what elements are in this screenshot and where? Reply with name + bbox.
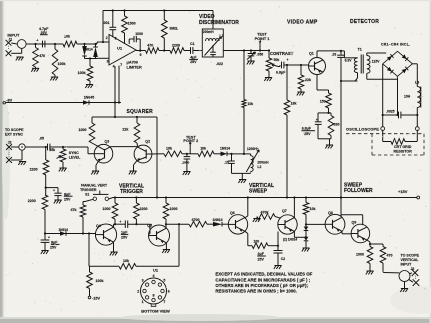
svg-text:2200: 2200 [30,167,38,171]
svg-text:18k: 18k [291,102,297,106]
svg-text:100k: 100k [58,62,66,66]
svg-text:4: 4 [153,274,155,278]
svg-text:-15V: -15V [92,297,100,301]
svg-text:J3: J3 [411,267,415,271]
svg-text:C2: C2 [281,257,285,261]
svg-text:Q1: Q1 [309,52,314,56]
svg-text:LIMITER: LIMITER [127,66,142,70]
svg-text:POINT 2: POINT 2 [183,139,198,143]
svg-text:+: + [316,118,318,122]
svg-text:2: 2 [106,36,108,40]
svg-text:U1: U1 [117,46,123,51]
svg-text:+: + [53,189,55,193]
svg-text:FOLLOWER: FOLLOWER [344,188,373,194]
svg-text:10k: 10k [248,102,254,106]
svg-text:100: 100 [254,240,260,244]
svg-text:Q9: Q9 [352,220,357,224]
svg-text:25V: 25V [190,60,197,64]
svg-text:T1: T1 [358,47,362,51]
svg-text:TO SCOPE: TO SCOPE [401,253,420,257]
svg-text:2200: 2200 [140,207,148,211]
svg-text:+: + [287,58,289,62]
svg-text:25V: 25V [304,132,311,136]
svg-text:10k: 10k [166,146,172,150]
svg-text:OSCILLOSCOPE: OSCILLOSCOPE [346,126,379,131]
svg-text:8: 8 [115,37,117,41]
svg-text:115V: 115V [372,59,380,63]
svg-text:Q8: Q8 [328,211,333,215]
svg-text:CONTRAST: CONTRAST [270,51,294,56]
svg-text:22k: 22k [305,78,311,82]
svg-text:SWEEP: SWEEP [249,189,268,195]
svg-text:1000: 1000 [170,207,178,211]
svg-text:N914: N914 [85,48,93,52]
svg-text:10H: 10H [404,95,411,99]
svg-text:+: + [48,236,50,240]
svg-text:1000: 1000 [356,253,364,257]
svg-text:7: 7 [163,300,165,304]
svg-text:OTHERS ARE IN PICOFARADS ( pF: OTHERS ARE IN PICOFARADS ( pF OR μμF); [215,283,308,288]
svg-text:200mH: 200mH [203,30,214,34]
svg-text:6.3V: 6.3V [345,58,353,62]
svg-text:μA709: μA709 [127,61,138,65]
svg-text:.0025: .0025 [386,110,395,114]
svg-text:47k: 47k [71,208,77,212]
svg-text:10k: 10k [123,259,129,263]
svg-text:DISCRIMINATOR: DISCRIMINATOR [199,20,239,26]
svg-text:Q3: Q3 [105,140,110,144]
svg-text:.33: .33 [332,53,337,57]
svg-text:+: + [119,220,121,224]
svg-text:1000: 1000 [79,128,87,132]
svg-text:6.8μF: 6.8μF [302,127,312,131]
svg-text:22k: 22k [122,128,128,132]
svg-text:BOTTOM VIEW: BOTTOM VIEW [141,309,170,314]
svg-text:L2: L2 [257,165,261,169]
svg-text:SQUARER: SQUARER [127,109,154,115]
svg-text:C1: C1 [190,42,195,46]
svg-text:25V: 25V [50,246,57,250]
svg-text:(2) 1N914: (2) 1N914 [283,237,297,241]
svg-text:J2: J2 [8,140,12,144]
svg-text:.1500: .1500 [182,161,190,165]
svg-text:.056: .056 [257,52,264,56]
svg-text:25V: 25V [258,257,265,261]
svg-text:Q2: Q2 [145,140,150,144]
svg-text:.001: .001 [103,21,110,25]
svg-text:2200: 2200 [28,199,36,203]
svg-text:CR1–CR4 INCL.: CR1–CR4 INCL. [381,43,410,47]
svg-text:RESISTOR: RESISTOR [394,150,413,154]
svg-text:VIDEO AMP: VIDEO AMP [287,20,318,26]
svg-text:470: 470 [39,54,45,58]
svg-text:330: 330 [334,122,340,126]
svg-text:1μF: 1μF [121,230,128,234]
svg-text:Q7: Q7 [282,209,287,213]
svg-text:25V: 25V [64,197,71,201]
svg-text:1000: 1000 [103,207,111,211]
svg-text:1500: 1500 [128,22,136,26]
svg-text:CAPACITANCE ARE IN MICROFARADS: CAPACITANCE ARE IN MICROFARADS ( μF ) ; [215,278,310,283]
svg-text:100k: 100k [78,71,86,75]
svg-text:100k: 100k [96,279,104,283]
svg-text:TRIGGER: TRIGGER [120,189,143,195]
svg-text:LEVEL: LEVEL [69,156,81,160]
svg-text:1N914: 1N914 [59,228,69,232]
svg-text:CRT GRID: CRT GRID [394,145,412,149]
svg-text:POINT 1: POINT 1 [255,37,270,41]
svg-text:.022: .022 [216,62,223,66]
svg-text:6.8μF: 6.8μF [276,71,286,75]
svg-text:25V: 25V [121,236,128,240]
svg-text:4μF: 4μF [190,55,197,59]
svg-text:+15V: +15V [398,189,408,194]
svg-text:2μF: 2μF [258,252,265,256]
svg-text:3MΩ.: 3MΩ. [169,27,178,31]
svg-text:470: 470 [147,43,153,47]
svg-text:2200: 2200 [172,43,180,47]
svg-text:2: 2 [137,289,139,293]
svg-text:EXT SYNC: EXT SYNC [5,133,23,137]
svg-text:1N914: 1N914 [220,146,230,150]
svg-text:INPUT: INPUT [401,263,413,267]
svg-text:Q4: Q4 [96,224,101,228]
svg-text:.15: .15 [224,160,229,164]
svg-text:10k: 10k [310,207,316,211]
svg-text:1N645: 1N645 [84,96,95,100]
svg-text:RESISTANCES ARE IN OHMS ; k=: RESISTANCES ARE IN OHMS ; k= 1000. [215,289,296,294]
svg-text:25k: 25k [50,148,56,152]
svg-text:DETECTOR: DETECTOR [350,19,379,25]
svg-text:L3: L3 [415,81,419,85]
svg-text:1000: 1000 [135,32,143,36]
svg-text:470k: 470k [261,211,269,215]
svg-text:MANUAL VERT: MANUAL VERT [81,183,108,187]
svg-text:470: 470 [387,253,393,257]
svg-text:TRIGGER: TRIGGER [80,188,97,192]
svg-text:VERTICAL: VERTICAL [401,258,420,262]
svg-text:Q6: Q6 [230,211,235,215]
svg-text:U1: U1 [153,268,159,273]
svg-text:50k: 50k [274,58,280,62]
svg-text:3: 3 [142,279,144,283]
svg-text:TEST: TEST [257,33,267,37]
svg-text:6: 6 [168,289,170,293]
svg-text:S1: S1 [85,192,89,196]
svg-text:10k: 10k [200,146,206,150]
svg-text:TO SCOPE: TO SCOPE [5,128,24,132]
svg-text:4: 4 [113,65,115,69]
svg-text:EXCEPT AS INDICATED, DECIMAL V: EXCEPT AS INDICATED, DECIMAL VALUES OF [215,272,312,277]
svg-text:6: 6 [140,53,142,57]
svg-text:150: 150 [320,100,326,104]
svg-text:SYNC: SYNC [69,151,79,155]
svg-text:1: 1 [142,300,144,304]
svg-text:+: + [36,39,38,43]
svg-text:5: 5 [163,279,165,283]
svg-text:7: 7 [120,63,122,67]
svg-text:8: 8 [153,294,155,298]
svg-text:3: 3 [107,59,109,63]
svg-text:1N914: 1N914 [213,218,223,222]
svg-text:.05: .05 [39,137,44,141]
svg-text:4700: 4700 [192,218,200,222]
